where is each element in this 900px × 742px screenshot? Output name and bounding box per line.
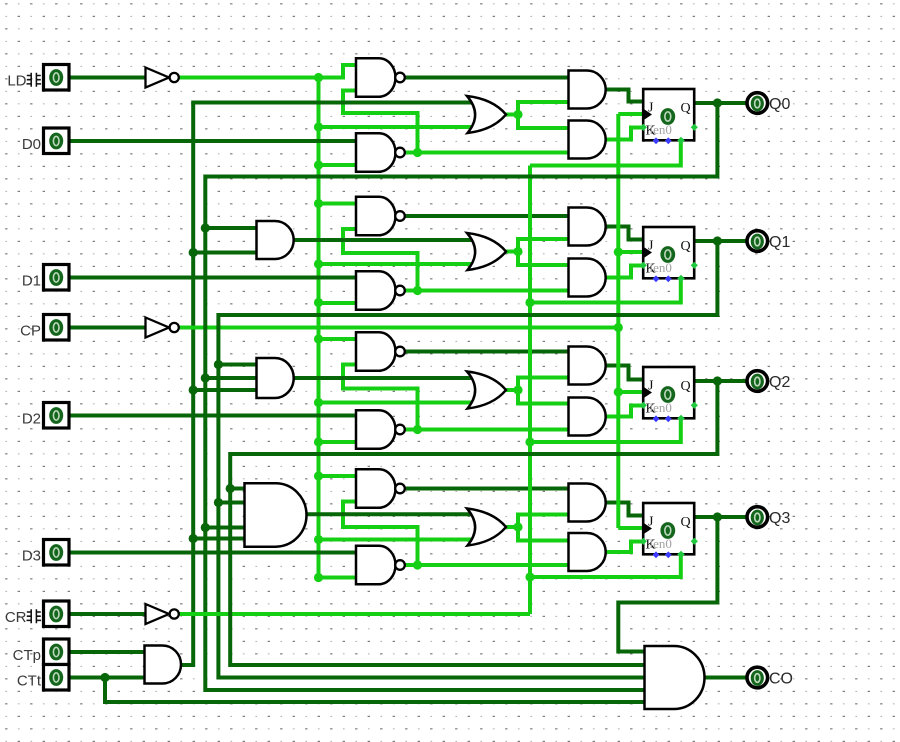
wire NAND_b3 output to ANDK3 [404,563,568,567]
NOT gate U2 (CP) [146,318,170,338]
wire Q3 output to indicator [694,515,747,519]
input pin D0 [44,128,70,154]
wire Q0 to AND2 [205,376,256,380]
wire CP NOT output to clock junction [179,326,618,330]
wire ANDK1 output to K pin [604,266,644,278]
NAND gate U7A [356,469,396,508]
NAND gate U4A [356,58,395,97]
svg-text:D1: D1 [22,273,41,290]
wire T to AND1 [193,251,256,255]
wire Q3 feedback to carry AND [618,517,717,652]
wire CP input to NOT gate [69,326,146,330]
wire Q1 to AND3 [218,501,245,505]
AND gate K4 [569,533,606,571]
wire CR input to NOT gate [69,612,146,616]
NOT gate U3 (CR) [146,604,170,624]
wire CR NOT output [179,612,530,616]
wire NANDb output to ANDJ1 [404,214,568,218]
wire LD to NAND_b0 input [319,163,357,167]
AND gate J4 [569,484,606,522]
svg-text:CO: CO [769,670,793,687]
wire D3 to NAND [69,551,356,555]
svg-text:Q0: Q0 [769,96,790,113]
svg-text:Q: Q [681,101,691,116]
wire CR NOT output over trunks [179,612,530,616]
wire LD to NAND_b1 input [319,301,357,305]
AND gate K3 [569,398,606,436]
clock trigger arrow FF3 [645,524,653,534]
wire AND3 output to OR4 [304,512,473,516]
svg-text:Q: Q [681,515,691,530]
wire LD to OR2 input [319,401,474,405]
svg-text:Q: Q [681,239,691,254]
output indicator Q1 [747,231,768,252]
svg-text:Q2: Q2 [769,374,790,391]
AND gate K2 [569,259,606,297]
NAND gate U4B [356,133,396,172]
JK flip-flop FF2 [643,367,694,418]
svg-text:Q1: Q1 [769,234,790,251]
wire AND2 output to OR3 [290,376,473,380]
output indicator Q2 [747,371,768,392]
input pin D2 [44,403,70,429]
wire Q0 feedback trunk [205,103,717,690]
wire ANDJ3 output to J pin [604,503,644,516]
wire NAND_b1 output feedback to NAND_a1 [343,229,418,291]
wire ANDJ1 output to J pin [604,227,644,240]
JK flip-flop FF0 [643,89,694,140]
input pin CR [44,601,70,627]
wire Q0 output to indicator [694,101,747,105]
output indicator Q3 [747,507,768,528]
wire Q1 feedback trunk [218,241,717,678]
wire LD to NAND_a3 input [319,474,357,478]
wire LD input to NOT gate [69,76,146,80]
wire ANDK3 output to K pin [604,542,644,553]
wire NAND_b3 output feedback to NAND_a3 [343,502,418,566]
NAND gate U6A [356,332,396,371]
clock trigger arrow FF0 [645,110,653,120]
AND gate J3 [569,347,606,385]
wire ANDJ0 output to J pin [604,90,644,102]
pins FF3 [691,538,698,545]
wire clock stubs to flip-flops [618,112,643,116]
wire NAND_b1 output to ANDK1 [404,289,568,293]
wire LD to OR3 input [319,538,474,542]
AND gate J2 [569,208,606,246]
OR gate U11 [467,509,506,546]
wire T to AND2 [193,388,256,392]
AND gate carry chain A2 [257,358,294,398]
NAND gate U7B [356,546,396,585]
svg-text:D0: D0 [22,136,41,153]
wire LD to NAND_a1 input [319,202,357,206]
AND gate J1 [569,71,606,109]
wire enable line FF1 [530,278,681,302]
wire Q1 output to indicator [694,239,747,243]
wire LD to OR1 input [319,262,474,266]
wire LD to NAND_b3 input [319,576,357,580]
OR gate U9 [467,233,506,270]
wire Q2 to AND3 [230,487,245,491]
wire D1 to NAND [69,276,356,280]
input pin LD [44,65,70,91]
clock trigger arrow FF2 [645,388,653,398]
input pin CP [44,315,70,341]
wire enable line FF2 [530,418,681,442]
wire Q1 to AND2 [218,363,256,367]
wire ANDJ2 output to J pin [604,366,644,380]
pins FF1 [691,262,698,269]
NAND gate U5B [356,271,396,310]
wire CTt to AND with junction branch [69,676,145,680]
NAND gate U5A [356,197,396,236]
AND gate carry chain A3 (4-input) [245,483,307,546]
NOT gate U1 (LD) [146,68,170,88]
wire ANDK2 output to K pin [604,406,644,417]
wire clock trunk [616,114,620,528]
wire AND1 output to OR2 [290,238,473,242]
AND gate carry chain A1 [257,221,294,259]
wire OR3 output branches [504,525,518,529]
svg-text:D3: D3 [22,548,41,565]
NAND gate U6B [356,410,396,449]
wire T to AND3 [193,537,245,541]
OR gate U8 [467,96,506,133]
svg-text:CTp: CTp [13,647,41,664]
wire LD bright trunk [317,78,321,576]
wire LD to OR0 input [319,125,474,129]
output indicator Q0 [747,93,768,114]
JK flip-flop FF1 [643,227,694,278]
wire T product to OR1 input [191,101,473,105]
clock trigger arrow FF1 [645,248,653,258]
junction dots [314,73,323,82]
wire Q2 output to indicator [694,379,747,383]
wire OR2 output branches [504,388,518,392]
wire CR trunk [528,166,532,615]
wire OR1 output branches [504,250,518,254]
wire carry AND output [179,663,193,667]
wire OR0 output branches [504,113,518,117]
wire D2 to NAND [69,414,356,418]
JK flip-flop FF3 [643,503,694,554]
wire LD to NAND_b2 input [319,440,357,444]
wire Q0 to AND3 [205,526,245,530]
wire NANDd output to ANDJ3 [404,487,568,491]
wire T trunk: CTp*CTt product up to OR1 [181,103,193,666]
pins FF0 [691,124,698,131]
wire NANDa output to ANDJ0 [404,76,568,80]
wire Q2 feedback trunk [230,381,717,665]
wire ANDK0 output to K pin [604,128,644,140]
wire enable line FF0 [530,140,681,165]
svg-text:LD: LD [7,73,26,90]
input pin D3 [44,540,70,566]
AND gate CTp-CTt [145,646,182,684]
wire CTt down to carry AND gate [105,678,645,703]
output indicator CO [747,667,768,688]
OR gate U10 [467,372,506,409]
pins FF2 [691,402,698,409]
input pin CTp [44,639,70,665]
svg-text:Q: Q [681,379,691,394]
wire NANDc output to ANDJ2 [404,350,568,354]
svg-text:CTt: CTt [17,673,42,690]
AND gate carry out CO [645,646,705,709]
wire NAND_b2 output feedback to NAND_a2 [343,365,418,430]
svg-text:Q3: Q3 [769,510,790,527]
wire CO output to indicator [705,676,748,680]
wire LD NOT output to trunk [179,76,319,80]
wire Q0 to AND1 [205,226,256,230]
wire enable line FF3 [530,554,681,577]
svg-text:D2: D2 [22,411,41,428]
input pin CTt [44,665,70,691]
wire D0 to NAND [69,139,356,143]
svg-text:CR: CR [5,609,27,626]
input pin D1 [44,265,70,291]
wire CTp to AND [69,650,145,654]
wire LD to NAND_a1 input jog [319,65,357,78]
svg-text:CP: CP [20,323,41,340]
wire NAND_b0 output to ANDK0 [404,151,568,155]
wire LD to NAND_a2 input [319,337,357,341]
wire NAND_b0 output feedback to NAND_a0 [343,91,418,153]
AND gate K1 [569,121,606,159]
wire NAND_b2 output to ANDK2 [404,428,568,432]
